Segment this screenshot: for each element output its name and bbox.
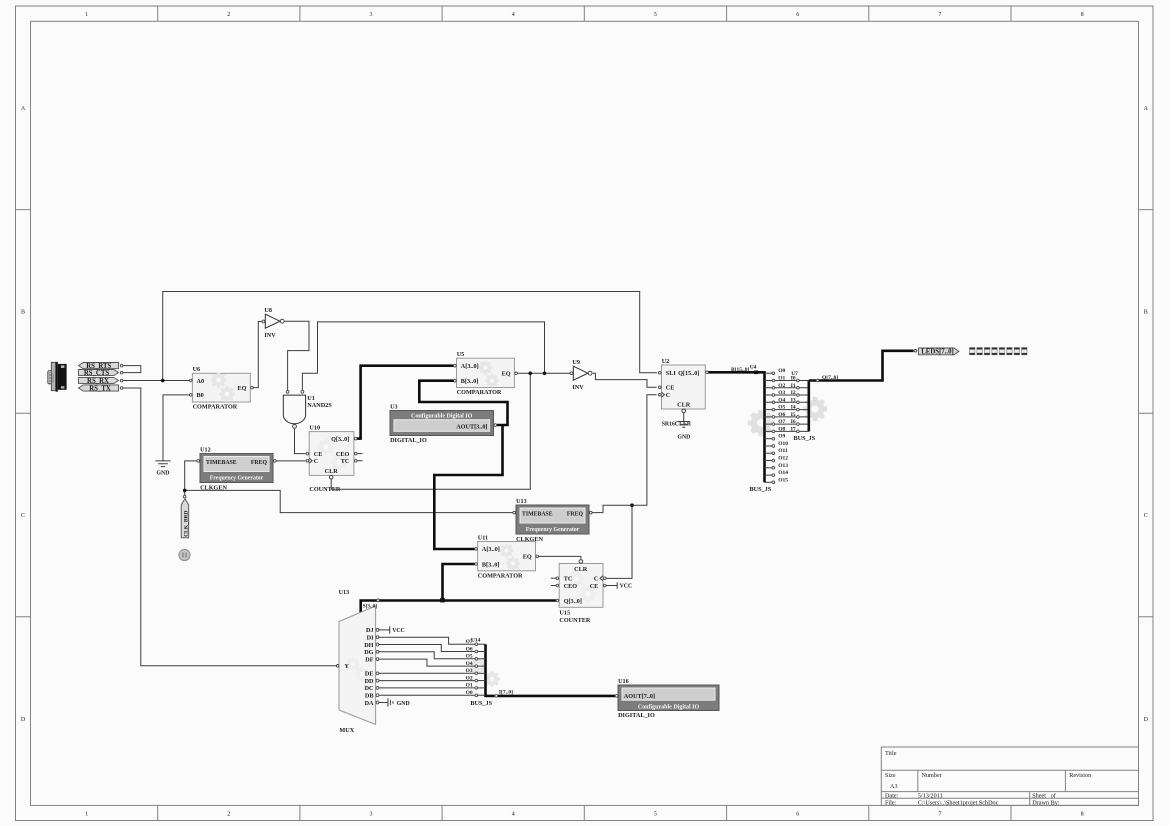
svg-text:O0: O0 [466,690,473,696]
svg-text:GND: GND [397,701,410,707]
column numbers top [85,12,1084,18]
wire DF to O4 [379,659,475,666]
svg-text:U6: U6 [193,366,201,373]
svg-text:4: 4 [512,812,515,818]
svg-text:DIGITAL_IO: DIGITAL_IO [390,437,427,444]
svg-text:B: B [1144,310,1148,316]
svg-text:7: 7 [938,12,941,18]
svg-text:O3: O3 [466,668,473,674]
svg-text:O10: O10 [778,441,788,447]
svg-text:C: C [1144,513,1148,519]
wire DH to O6 [379,645,475,652]
svg-text:C: C [21,513,25,519]
svg-text:VCC: VCC [392,628,405,634]
svg-text:O4: O4 [778,397,785,403]
svg-text:B[3..0]: B[3..0] [482,561,500,568]
junction RX riser [161,379,165,383]
svg-text:6: 6 [796,812,799,818]
svg-text:Size: Size [885,772,896,779]
wire top long RX riser [163,292,658,381]
svg-text:O5: O5 [778,405,785,411]
mux D pins [364,627,379,707]
svg-text:DE: DE [365,671,374,678]
svg-text:6: 6 [796,12,799,18]
svg-text:CEO: CEO [564,583,578,590]
ground GND (B0) [155,461,170,467]
svg-text:DA: DA [365,700,374,707]
row O5 I4 [765,409,809,411]
svg-text:O13: O13 [778,463,788,469]
svg-text:U4: U4 [750,364,757,370]
svg-text:I5: I5 [791,412,796,418]
op-amp U11 comparator [478,542,536,571]
svg-text:4: 4 [512,12,515,18]
svg-text:Frequency Generator: Frequency Generator [526,527,580,533]
ground GND at U2.CLR [677,413,690,427]
svg-text:AOUT[7..0]: AOUT[7..0] [624,693,655,700]
clkgen U12 frequency generator [200,454,273,483]
svg-text:CEO: CEO [336,451,350,458]
junction EQ-NAND riser [543,372,547,376]
row O0 [765,372,773,374]
svg-text:I[7..0]: I[7..0] [499,689,513,695]
svg-text:O4: O4 [466,661,473,667]
svg-text:Frequency Generator: Frequency Generator [210,476,264,482]
svg-text:I2: I2 [791,390,796,396]
gear watermark U6 [210,372,226,388]
svg-text:DIGITAL_IO: DIGITAL_IO [618,712,655,719]
row O4 I3 [765,401,809,403]
border column dividers bottom [158,805,1011,820]
svg-text:B[3..0]: B[3..0] [461,378,479,385]
svg-text:U13: U13 [516,498,527,505]
svg-text:COMPARATOR: COMPARATOR [478,572,523,579]
svg-text:O8: O8 [778,426,785,432]
row O13 [765,467,773,469]
svg-text:C: C [666,392,670,399]
clock mark U15.C [600,576,603,581]
clkgen U13 frequency generator [516,505,589,534]
svg-text:A: A [1144,106,1149,112]
svg-text:BUS_JS: BUS_JS [470,700,492,707]
wire DB to O0 [379,694,475,696]
title block [881,747,1138,805]
ground GND at DA [379,698,393,706]
inverter U9 INV [570,372,573,375]
pin circle U7 bus [816,379,819,382]
svg-text:B0: B0 [197,392,204,399]
svg-text:DH: DH [364,642,373,649]
svg-text:U14: U14 [471,637,481,643]
svg-text:GND: GND [157,471,170,477]
svg-text:Number: Number [922,772,942,779]
row O7 I6 [765,423,809,425]
svg-text:U2: U2 [662,358,670,365]
port RS_RX [79,377,119,383]
wire DC to O1 [379,687,475,689]
svg-text:U7: U7 [791,371,798,377]
pin Y [336,664,339,667]
wire U9 out to U2.CE [593,373,657,387]
svg-text:A[3..0]: A[3..0] [461,363,479,370]
bus blob [754,371,758,375]
svg-text:1: 1 [85,812,88,818]
svg-text:Drawn By:: Drawn By: [1032,799,1060,806]
wire U8 out to NAND in1 [285,321,309,390]
pin circle RS_CTS [120,371,123,374]
svg-text:COMPARATOR: COMPARATOR [457,389,502,396]
svg-text:TC: TC [564,576,573,583]
svg-text:B: B [21,310,25,316]
svg-text:LEDS[7..0]: LEDS[7..0] [921,349,953,356]
svg-text:8: 8 [1081,12,1084,18]
svg-text:CE: CE [590,583,599,590]
bus joiner U7 vertical [807,381,810,432]
wire DD to O2 [379,680,475,682]
svg-text:U1: U1 [307,395,315,402]
svg-text:GND: GND [677,434,690,440]
row O10 [765,445,773,447]
pin CLR bubble U10 [329,475,333,479]
watermark gear pair near bus rippers [748,410,775,437]
wire DG to O5 [379,652,475,659]
svg-text:DF: DF [365,656,373,663]
port LEDS[7..0] [914,350,917,353]
svg-text:EQ: EQ [502,371,511,378]
wire RTS to CTS loop [123,366,141,373]
wire U13.FREQ to U2.C and U15.C [592,395,656,579]
bus joiner U14 [486,644,495,696]
svg-text:COMPARATOR: COMPARATOR [193,404,238,411]
power VCC at U15.CE [606,582,617,589]
junction CLKGEN node [183,489,187,493]
row O15 [765,481,773,483]
bus U5.B to U3.AOUT [419,381,507,425]
bus ripper U4 rows O0..O15 with U7 rows I0..I7 [765,368,809,483]
svg-text:O14: O14 [778,470,788,476]
svg-text:O3: O3 [778,390,785,396]
wire U6.B0 to GND [163,395,190,461]
svg-text:U9: U9 [572,359,580,366]
svg-text:D: D [1144,717,1149,723]
wire U6.EQ to U8 input [254,322,262,388]
wire U11.EQ to U15.CLR [539,556,581,558]
svg-text:Configurable Digital IO: Configurable Digital IO [638,704,700,710]
svg-text:O1: O1 [466,683,473,689]
border row dividers left [16,210,31,617]
counter U2 SR16CLER [662,365,706,409]
mux U13 [339,606,376,725]
wire U5.EQ to U9 input [518,372,572,374]
svg-text:EQ: EQ [238,385,247,392]
svg-text:5: 5 [654,12,657,18]
svg-text:Q[7..0]: Q[7..0] [822,375,838,381]
row O12 [765,460,773,462]
svg-text:INV: INV [572,384,584,391]
row O6 I5 [765,416,809,418]
port RS_TX [79,385,119,391]
svg-text:O6: O6 [778,412,785,418]
svg-text:A[3..0]: A[3..0] [482,546,500,553]
svg-text:7: 7 [938,812,941,818]
row O9 [765,438,773,440]
bus U3.AOUT down to U11.A [434,425,502,549]
svg-text:I1: I1 [791,383,796,389]
svg-text:U15: U15 [559,610,570,617]
svg-text:BUS_JS: BUS_JS [750,486,772,493]
svg-text:U10: U10 [309,424,320,431]
svg-text:CLR: CLR [574,566,588,573]
svg-text:D: D [21,717,26,723]
svg-text:AOUT[3..0]: AOUT[3..0] [456,423,487,430]
svg-text:RS_RX: RS_RX [87,378,109,385]
svg-text:TC: TC [341,458,350,465]
port RS_CTS [79,370,119,376]
border row dividers right [1139,210,1154,617]
svg-text:3: 3 [370,812,373,818]
svg-text:SLI: SLI [666,370,677,377]
svg-text:EQ: EQ [523,554,532,561]
svg-text:File:: File: [885,799,897,806]
port RS_RTS [79,363,119,369]
row letters left [21,106,26,723]
row O14 [765,474,773,476]
pin circle RS_RX [120,379,123,382]
svg-text:BUS_JS: BUS_JS [794,435,816,442]
inverter U8 INV [262,320,265,323]
svg-text:2: 2 [227,812,230,818]
counter U10 [309,432,354,476]
wire RS_RX to U6.A0 [123,380,189,382]
svg-text:C: C [314,458,318,465]
pin circle S bus on mux [377,599,380,602]
svg-text:RS_CTS: RS_CTS [84,370,110,377]
svg-text:O2: O2 [466,675,473,681]
junction freq node [630,503,634,507]
svg-text:Revision: Revision [1069,772,1091,779]
op-amp U6 comparator [192,373,250,402]
wire RS_TX down to MUX Y [123,388,336,666]
LED array 8 SMD leds [970,348,1028,355]
wire long from NAND in2 to EQ node riser [302,322,544,390]
svg-text:Q[3..0]: Q[3..0] [564,598,582,605]
svg-text:O6: O6 [466,646,473,652]
svg-text:I6: I6 [791,419,796,425]
svg-text:U5: U5 [457,351,465,358]
no-ERC marker circle [179,549,190,560]
svg-text:A: A [21,106,26,112]
svg-text:RS_TX: RS_TX [89,385,111,392]
row O11 [765,452,773,454]
svg-text:FREQ: FREQ [567,512,584,518]
svg-text:MUX: MUX [339,727,354,734]
svg-text:CE: CE [666,385,675,392]
svg-text:O1: O1 [778,376,785,382]
svg-text:DD: DD [365,678,374,685]
svg-text:Q[3..0]: Q[3..0] [331,436,349,443]
svg-text:U16: U16 [618,678,629,685]
column numbers bottom [85,812,1084,818]
svg-text:U13: U13 [339,589,350,596]
transistor U1 NAND2S gate [286,390,289,393]
digital io U16 [618,685,719,711]
clock mark U2.C [662,392,665,397]
counter U15 [559,564,603,608]
wire U1 out to U10.CE [295,429,306,454]
wire DE to O3 [379,672,475,674]
bus U11.B down to S bus [443,564,475,599]
svg-text:TIMEBASE: TIMEBASE [206,460,237,466]
svg-text:2: 2 [227,12,230,18]
svg-text:Y: Y [345,663,350,670]
svg-text:O2: O2 [778,383,785,389]
wire U12.TIMEBASE net to CLK_BRD and U13 [185,461,513,513]
svg-text:S[3..0]: S[3..0] [363,604,377,610]
svg-text:DG: DG [364,649,373,656]
row O1 I0 [765,380,809,382]
svg-text:Configurable Digital IO: Configurable Digital IO [411,414,473,420]
row O3 I2 [765,394,809,396]
bus U7 out to LEDS [809,351,914,381]
junction EQ-CLR riser [529,372,533,376]
wire DI to O7 [379,637,475,644]
port CLK_BRD [183,495,186,498]
svg-text:A0: A0 [197,378,205,385]
svg-text:DB: DB [365,693,374,700]
svg-text:B[15..0]: B[15..0] [731,367,750,373]
bus junction S node [440,598,445,602]
row O2 I1 [765,387,809,389]
svg-text:I7: I7 [791,426,796,432]
svg-text:DI: DI [367,635,374,642]
svg-text:5: 5 [654,812,657,818]
connector J DB9 [48,362,67,392]
bus U14 to U16 [498,695,615,698]
svg-text:U11: U11 [478,534,488,541]
svg-text:I4: I4 [791,405,796,411]
svg-text:TIMEBASE: TIMEBASE [522,512,553,518]
pin CLR bubble U2 [682,409,686,413]
svg-text:VCC: VCC [620,584,633,590]
pin circle U14 bus out [495,695,498,698]
svg-text:1: 1 [85,12,88,18]
clock mark U10.C [309,458,312,463]
svg-text:O15: O15 [778,477,788,483]
bus U10.Q to U5.A [357,366,453,439]
svg-text:COUNTER: COUNTER [559,617,590,624]
svg-text:CLK_BRD: CLK_BRD [183,510,189,536]
svg-text:O7: O7 [778,419,785,425]
svg-text:8: 8 [1081,812,1084,818]
row O8 I7 [765,430,809,432]
power VCC at DJ [379,626,390,633]
svg-text:O5: O5 [466,654,473,660]
bus U2.Q to ripper U4 [709,372,765,482]
svg-text:Q[15..0]: Q[15..0] [678,370,699,377]
svg-text:INV: INV [264,332,276,339]
svg-text:NAND2S: NAND2S [307,402,332,409]
svg-text:DJ: DJ [366,627,374,634]
svg-text:C: C [594,576,598,583]
svg-text:CE: CE [314,451,323,458]
row letters right [1144,106,1149,723]
svg-text:O11: O11 [778,448,788,454]
svg-text:C:\Users\..\Sheet1projet.SchDo: C:\Users\..\Sheet1projet.SchDoc [918,799,999,806]
svg-text:DC: DC [365,685,374,692]
svg-text:U8: U8 [264,307,272,314]
pin circle RS_RTS [120,364,123,367]
bus U15.Q to S bus and MUX [361,601,556,615]
svg-text:Title: Title [885,750,897,757]
wire U10.CLR down to EQ riser [331,375,530,490]
svg-text:U3: U3 [390,403,398,410]
svg-text:3: 3 [370,12,373,18]
svg-text:O9: O9 [778,434,785,440]
wire U12.FREQ to U10.C [276,460,305,462]
svg-text:CLR: CLR [325,468,339,475]
svg-text:CLR: CLR [677,401,691,408]
digital io U3 [390,411,494,436]
svg-text:A3: A3 [890,783,898,790]
svg-text:O12: O12 [778,456,788,462]
title block text [885,750,1091,807]
pin circle RS_TX [120,387,123,390]
op-amp U5 comparator [457,358,515,387]
svg-text:O0: O0 [778,368,785,374]
svg-text:I3: I3 [791,397,796,403]
svg-text:U12: U12 [200,446,211,453]
watermark gear pair near U14 [471,658,487,674]
svg-text:FREQ: FREQ [251,460,268,466]
